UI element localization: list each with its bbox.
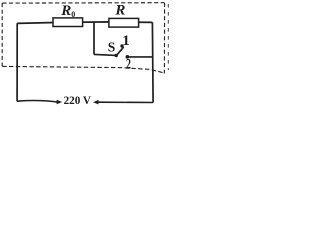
dashed black-box border right edge — [163, 3, 165, 74]
dashed black-box border left edge — [1, 3, 3, 66]
dashed black-box border bottom edge — [2, 66, 163, 72]
switch S pivot dot — [115, 54, 118, 57]
svg-text:220 V: 220 V — [64, 93, 92, 106]
switch contact 2 dot — [126, 55, 130, 59]
wire: left vertical — [16, 23, 18, 101]
wire: bottom right segment — [98, 101, 153, 103]
svg-text:S: S — [108, 39, 116, 54]
switch S lever — [116, 47, 123, 56]
svg-text:2: 2 — [126, 56, 131, 72]
arrowhead pointing left (right of 220 V) — [93, 100, 99, 105]
resistor R0 — [53, 18, 83, 27]
svg-text:R: R — [114, 3, 125, 19]
page-edge stray marks (scan bleed) — [167, 4, 169, 70]
wire: top horizontal — [17, 22, 152, 24]
dashed black-box border top edge — [2, 2, 164, 4]
wire: bottom left segment — [17, 101, 57, 102]
wire: branch vertical from top wire to switch — [93, 22, 95, 55]
wire: contact 2 to right vertical — [129, 56, 153, 58]
wire: branch horizontal to switch pivot — [94, 54, 117, 55]
switch contact 1 dot — [120, 44, 123, 47]
wire: right vertical — [151, 22, 154, 102]
resistor R — [109, 18, 139, 27]
svg-text:1: 1 — [122, 33, 130, 49]
arrowhead pointing right (left of 220 V) — [57, 100, 63, 105]
